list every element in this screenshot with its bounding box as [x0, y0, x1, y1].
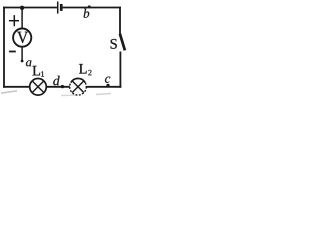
wire bottom-right segment	[86, 86, 121, 88]
wire right upper (down to switch)	[119, 7, 121, 35]
voltmeter circle	[13, 28, 31, 46]
probe tip dot (node a)	[21, 60, 24, 63]
label S	[111, 39, 117, 49]
lamp L2 cross	[72, 81, 84, 93]
label L2	[79, 64, 87, 73]
wire between lamps	[46, 86, 70, 88]
lamp L2 solid top-left arc	[71, 78, 85, 82]
lamp L2 circle (partly dashed)	[70, 79, 87, 96]
lamp L1 cross	[32, 81, 44, 93]
node c dot	[106, 84, 109, 87]
label a	[26, 60, 31, 66]
plus sign	[9, 20, 19, 22]
voltmeter bottom lead	[21, 47, 23, 62]
wire bottom-left segment	[3, 86, 30, 88]
wire right lower (switch to corner)	[119, 52, 121, 88]
switch S blade	[120, 34, 125, 51]
label d	[53, 76, 59, 86]
minus sign	[9, 51, 16, 53]
wire left side	[3, 7, 5, 88]
faint scan smudge below lamp L2	[61, 94, 75, 96]
wire top-right segment	[63, 7, 121, 9]
label b	[84, 9, 90, 18]
battery short thick plate	[60, 4, 63, 11]
label V	[17, 32, 28, 43]
label c	[105, 77, 110, 83]
node d dot	[61, 85, 64, 88]
faint scan smudge bottom-right	[96, 94, 111, 95]
voltmeter top lead	[21, 8, 23, 29]
voltmeter junction dot on top wire	[20, 6, 24, 10]
battery long plate	[57, 2, 59, 14]
label L1	[33, 66, 41, 75]
faint scan smudge bottom-left	[1, 91, 17, 93]
node b dot	[88, 5, 91, 8]
wire top-left segment	[3, 7, 57, 9]
lamp L1 circle	[30, 79, 47, 96]
